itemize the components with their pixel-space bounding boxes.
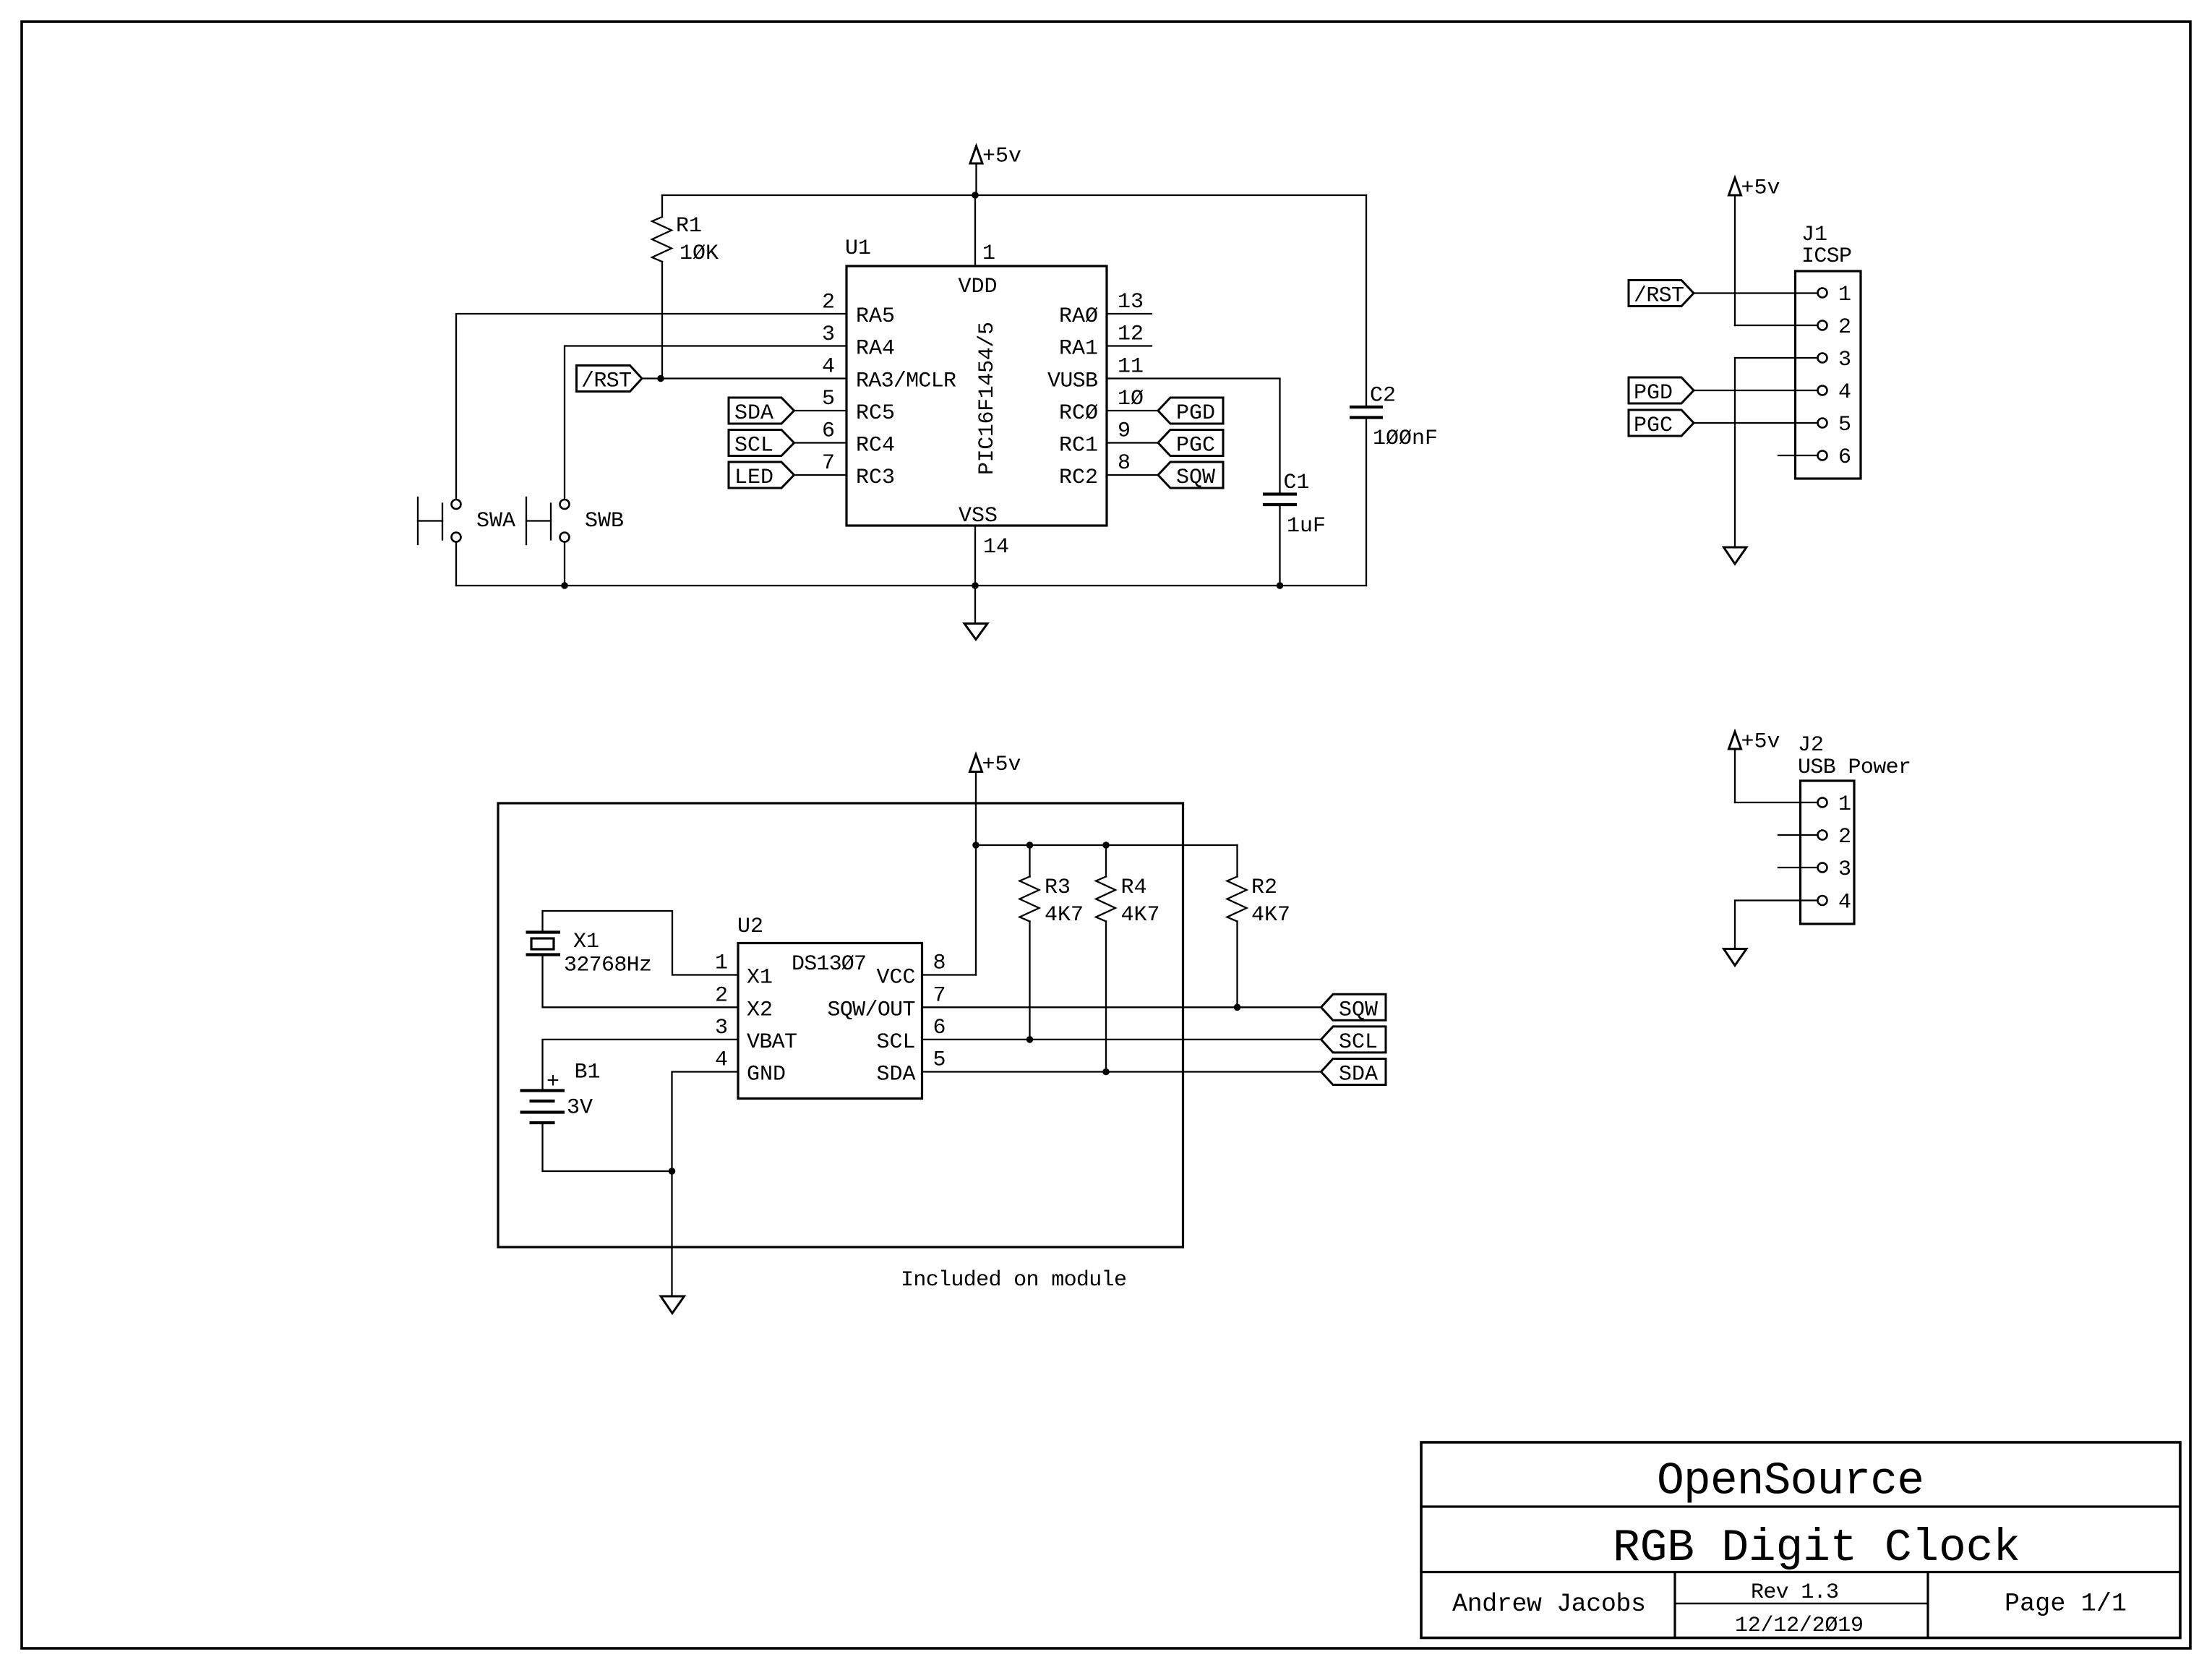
net flag PGC at J1 xyxy=(1629,410,1694,438)
junction node battery / GND xyxy=(669,1168,676,1175)
svg-text:RAØ: RAØ xyxy=(1059,304,1098,329)
wire VCC pin 8 xyxy=(922,974,977,975)
svg-text:RGB Digit Clock: RGB Digit Clock xyxy=(1613,1523,2020,1574)
junction node +5v pullup rail xyxy=(972,842,979,849)
svg-text:3V: 3V xyxy=(567,1096,593,1121)
svg-text:1Ø: 1Ø xyxy=(1118,387,1144,411)
wire X1 pin 1 loop xyxy=(543,911,739,975)
junction node C1 rail xyxy=(1277,582,1284,589)
wire VDD pin 1 xyxy=(974,195,976,266)
svg-text:Included on module: Included on module xyxy=(901,1268,1127,1293)
svg-text:VCC: VCC xyxy=(876,966,915,990)
svg-text:8: 8 xyxy=(933,951,946,976)
capacitor C1 xyxy=(1263,471,1326,586)
svg-text:6: 6 xyxy=(1838,445,1851,470)
svg-text:1: 1 xyxy=(982,241,995,266)
svg-text:SDA: SDA xyxy=(876,1063,915,1087)
title block frame xyxy=(1421,1442,2180,1638)
power +5v symbol J2 xyxy=(1729,730,1780,803)
wire SWB to ground rail xyxy=(564,542,565,586)
net flag SDA right xyxy=(1321,1059,1386,1087)
junction node R3 top xyxy=(1026,842,1034,849)
wire RC4 pin 6 xyxy=(794,442,847,443)
svg-text:6: 6 xyxy=(822,419,835,444)
svg-text:U2: U2 xyxy=(737,915,763,939)
wire RC2 pin 8 xyxy=(1107,474,1158,476)
resistor R1 xyxy=(652,195,719,379)
wire RA3/MCLR pin 4 xyxy=(642,377,846,379)
module boundary box (Included on module) xyxy=(498,803,1183,1247)
svg-text:+5v: +5v xyxy=(1741,176,1780,201)
svg-text:X1: X1 xyxy=(573,930,599,954)
net flag SQW at U1 xyxy=(1158,462,1223,490)
svg-text:SQW: SQW xyxy=(1339,998,1378,1022)
wire ground rail xyxy=(456,585,1366,586)
wire +5v to J1 pin 2 xyxy=(1735,325,1817,326)
svg-text:4K7: 4K7 xyxy=(1045,903,1084,928)
wire PGD to J1 pin 4 xyxy=(1694,390,1817,391)
svg-text:R3: R3 xyxy=(1045,875,1071,900)
svg-text:/RST: /RST xyxy=(581,369,632,394)
svg-text:+5v: +5v xyxy=(982,753,1021,777)
ground symbol U1 xyxy=(964,586,987,640)
wire SWA to ground rail xyxy=(455,542,457,586)
ground symbol J1 xyxy=(1724,547,1747,564)
junction node VSS rail xyxy=(972,582,979,589)
svg-text:ICSP: ICSP xyxy=(1801,244,1852,269)
svg-text:PGD: PGD xyxy=(1634,381,1673,406)
wire SQW/OUT pin 7 xyxy=(922,1006,1321,1008)
net flag PGC at U1 xyxy=(1158,430,1223,458)
svg-text:R2: R2 xyxy=(1251,875,1277,900)
wire J2 pin 2 stub xyxy=(1778,834,1817,836)
junction node R3 bottom xyxy=(1026,1036,1034,1043)
svg-text:3: 3 xyxy=(1838,857,1851,882)
svg-text:SCL: SCL xyxy=(876,1030,915,1055)
wire VBAT pin 3 to battery xyxy=(543,1040,739,1091)
svg-text:1ØØnF: 1ØØnF xyxy=(1373,427,1438,451)
junction node SWB rail xyxy=(561,582,568,589)
svg-text:4K7: 4K7 xyxy=(1251,903,1290,928)
svg-text:4: 4 xyxy=(822,355,835,380)
svg-text:PIC16F1454/5: PIC16F1454/5 xyxy=(975,322,1000,475)
wire RC1 pin 9 xyxy=(1107,442,1158,443)
wire SDA pin 5 xyxy=(922,1071,1321,1072)
junction node VDD rail xyxy=(972,192,979,199)
net flag /RST at U1 xyxy=(577,366,643,394)
svg-text:4: 4 xyxy=(1838,380,1851,405)
wire /RST to J1 pin 1 xyxy=(1694,292,1817,294)
junction node R4 top xyxy=(1102,842,1110,849)
svg-text:LED: LED xyxy=(734,466,773,490)
wire RA0 pin 13 stub xyxy=(1107,313,1152,314)
svg-text:SDA: SDA xyxy=(1339,1063,1378,1087)
wire X2 pin 2 xyxy=(543,955,739,1008)
svg-text:SWA: SWA xyxy=(476,509,515,534)
svg-text:VDD: VDD xyxy=(959,275,998,299)
wire +5v to J2 pin 1 xyxy=(1735,802,1817,803)
svg-text:11: 11 xyxy=(1118,355,1144,380)
svg-text:2: 2 xyxy=(1838,315,1851,340)
svg-text:RA4: RA4 xyxy=(856,337,895,361)
svg-text:1: 1 xyxy=(1838,283,1851,307)
junction node R4 bottom xyxy=(1102,1069,1110,1076)
svg-text:7: 7 xyxy=(933,983,946,1008)
svg-text:+5v: +5v xyxy=(1741,730,1780,755)
wire RA1 pin 12 stub xyxy=(1107,345,1152,346)
resistor R2 xyxy=(1227,845,1291,1007)
wire J2 pin 4 to ground xyxy=(1735,901,1817,949)
net flag SCL right xyxy=(1321,1027,1386,1055)
wire J1 pin 6 stub xyxy=(1778,455,1817,456)
svg-text:4K7: 4K7 xyxy=(1121,903,1160,928)
svg-text:6: 6 xyxy=(933,1016,946,1040)
power +5v symbol U2 xyxy=(970,753,1021,975)
connector J2 USB Power xyxy=(1798,733,1911,924)
svg-text:5: 5 xyxy=(933,1048,946,1073)
svg-text:1ØK: 1ØK xyxy=(680,241,719,266)
svg-text:4: 4 xyxy=(1838,891,1851,915)
svg-text:1: 1 xyxy=(715,951,728,976)
svg-text:RA5: RA5 xyxy=(856,304,895,329)
svg-text:USB Power: USB Power xyxy=(1798,755,1911,780)
svg-text:U1: U1 xyxy=(845,236,871,261)
junction node R2 bottom xyxy=(1234,1004,1241,1011)
svg-text:SDA: SDA xyxy=(734,401,773,426)
svg-text:9: 9 xyxy=(1118,419,1131,444)
svg-text:J2: J2 xyxy=(1798,733,1824,758)
svg-text:R4: R4 xyxy=(1121,875,1147,900)
svg-text:8: 8 xyxy=(1118,451,1131,476)
svg-text:12/12/2Ø19: 12/12/2Ø19 xyxy=(1735,1614,1864,1638)
wire pullup rail xyxy=(976,844,1238,846)
ground symbol U2 module xyxy=(661,1296,685,1314)
svg-text:RC1: RC1 xyxy=(1059,434,1098,458)
svg-text:2: 2 xyxy=(1838,825,1851,849)
svg-text:SWB: SWB xyxy=(585,509,624,534)
svg-text:+: + xyxy=(546,1070,560,1095)
svg-text:13: 13 xyxy=(1118,290,1144,314)
wire RC3 pin 7 xyxy=(794,474,847,476)
power +5v symbol U1 xyxy=(970,145,1021,196)
svg-text:C1: C1 xyxy=(1284,471,1310,495)
svg-text:3: 3 xyxy=(1838,348,1851,372)
svg-text:PGC: PGC xyxy=(1176,434,1215,458)
IC U1 PIC16F1454/5 xyxy=(822,236,1144,560)
wire J1 pin 3 to ground xyxy=(1735,358,1817,547)
svg-text:VUSB: VUSB xyxy=(1047,369,1098,394)
svg-text:RC4: RC4 xyxy=(856,434,895,458)
svg-text:14: 14 xyxy=(983,535,1009,560)
svg-text:C2: C2 xyxy=(1370,384,1396,408)
net flag SQW right xyxy=(1321,994,1386,1022)
wire VUSB pin 11 to C1 xyxy=(1107,379,1280,494)
wire PGC to J1 pin 5 xyxy=(1694,422,1817,424)
crystal X1 xyxy=(526,930,653,978)
svg-text:DS13Ø7: DS13Ø7 xyxy=(792,952,867,977)
svg-text:PGD: PGD xyxy=(1176,401,1215,426)
svg-text:32768Hz: 32768Hz xyxy=(564,954,652,978)
net flag SCL at U1 xyxy=(729,430,794,458)
svg-text:PGC: PGC xyxy=(1634,414,1673,438)
wire GND pin 4 down xyxy=(672,1072,739,1297)
svg-text:SQW: SQW xyxy=(1176,466,1215,490)
svg-text:RA3/MCLR: RA3/MCLR xyxy=(856,369,956,394)
wire SCL pin 6 xyxy=(922,1039,1321,1040)
svg-text:RC2: RC2 xyxy=(1059,466,1098,490)
svg-text:/RST: /RST xyxy=(1634,284,1684,309)
svg-text:OpenSource: OpenSource xyxy=(1657,1456,1924,1507)
battery B1 xyxy=(520,1061,601,1123)
svg-text:R1: R1 xyxy=(676,214,702,239)
IC U2 DS1307 xyxy=(715,915,946,1099)
svg-text:X2: X2 xyxy=(747,998,773,1023)
svg-text:X1: X1 xyxy=(747,966,773,990)
svg-text:12: 12 xyxy=(1118,322,1144,347)
wire +5v top rail xyxy=(662,194,1366,196)
svg-text:+5v: +5v xyxy=(982,145,1021,169)
wire VSS pin 14 xyxy=(974,526,976,586)
net flag /RST at J1 xyxy=(1629,281,1694,309)
net flag LED at U1 xyxy=(729,462,794,490)
net flag PGD at J1 xyxy=(1629,377,1694,406)
wire RC5 pin 5 xyxy=(794,410,847,411)
wire RC0 pin 10 xyxy=(1107,410,1158,411)
wire RA5 pin 2 to SWA xyxy=(456,314,846,500)
svg-text:2: 2 xyxy=(822,291,835,315)
svg-text:VBAT: VBAT xyxy=(747,1030,797,1055)
svg-text:Rev 1.3: Rev 1.3 xyxy=(1751,1580,1839,1605)
svg-text:7: 7 xyxy=(822,451,835,476)
svg-text:SCL: SCL xyxy=(734,434,773,458)
switch SWB xyxy=(526,497,624,544)
resistor R3 xyxy=(1020,845,1084,1040)
svg-text:RC3: RC3 xyxy=(856,466,895,490)
junction node R1 / RST / RA3 xyxy=(657,375,664,382)
ground symbol J2 xyxy=(1724,949,1747,966)
svg-text:SQW/OUT: SQW/OUT xyxy=(828,998,916,1023)
svg-text:1: 1 xyxy=(1838,792,1851,817)
svg-text:4: 4 xyxy=(715,1048,728,1073)
wire J2 pin 3 stub xyxy=(1778,867,1817,868)
capacitor C2 xyxy=(1350,195,1438,586)
svg-text:Page 1/1: Page 1/1 xyxy=(2005,1590,2127,1619)
svg-text:J1: J1 xyxy=(1801,223,1827,247)
svg-text:VSS: VSS xyxy=(959,504,998,528)
svg-text:B1: B1 xyxy=(575,1061,601,1085)
switch SWA xyxy=(418,497,515,544)
svg-text:3: 3 xyxy=(822,322,835,347)
connector J1 ICSP xyxy=(1796,223,1861,479)
svg-text:Andrew Jacobs: Andrew Jacobs xyxy=(1452,1590,1646,1619)
svg-text:5: 5 xyxy=(822,387,835,411)
net flag SDA at U1 xyxy=(729,398,794,426)
svg-text:GND: GND xyxy=(747,1063,786,1087)
svg-text:1uF: 1uF xyxy=(1287,514,1326,539)
wire RA4 pin 3 to SWB xyxy=(565,346,846,500)
svg-text:3: 3 xyxy=(715,1016,728,1040)
svg-text:RA1: RA1 xyxy=(1059,337,1098,361)
svg-text:RCØ: RCØ xyxy=(1059,401,1098,426)
power +5v symbol J1 xyxy=(1729,176,1780,326)
svg-text:5: 5 xyxy=(1838,413,1851,437)
svg-text:2: 2 xyxy=(715,983,728,1008)
wire battery negative to ground net xyxy=(543,1123,672,1171)
resistor R4 xyxy=(1096,845,1160,1072)
svg-text:SCL: SCL xyxy=(1339,1030,1378,1055)
svg-text:RC5: RC5 xyxy=(856,401,895,426)
net flag PGD at U1 xyxy=(1158,398,1223,426)
